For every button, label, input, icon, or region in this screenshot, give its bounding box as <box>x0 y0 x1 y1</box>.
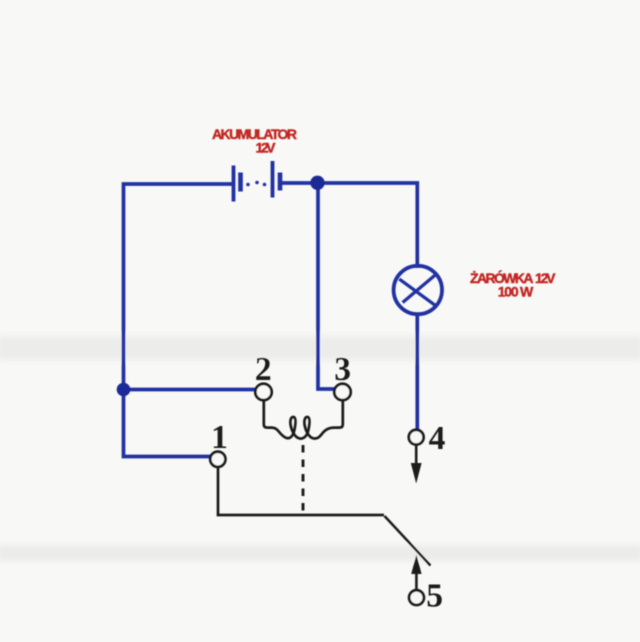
svg-text:5: 5 <box>426 577 443 614</box>
svg-text:12V: 12V <box>256 140 277 156</box>
svg-text:3: 3 <box>334 351 351 388</box>
svg-text:1: 1 <box>211 419 228 456</box>
svg-text:100 W: 100 W <box>498 284 534 300</box>
svg-text:2: 2 <box>255 351 272 388</box>
svg-text:AKUMULATOR: AKUMULATOR <box>212 126 297 142</box>
svg-text:4: 4 <box>429 420 446 457</box>
svg-text:12V: 12V <box>535 270 556 286</box>
